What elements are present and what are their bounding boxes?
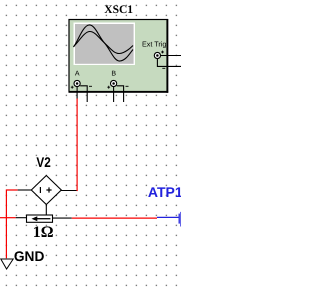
svg-text:A: A (75, 71, 80, 78)
svg-text:B: B (111, 71, 116, 78)
svg-text:1Ω: 1Ω (33, 224, 54, 241)
svg-text:XSC1: XSC1 (104, 4, 133, 16)
svg-text:ATP1: ATP1 (148, 184, 181, 200)
svg-text:Ext Trig: Ext Trig (142, 40, 166, 49)
svg-text:GND: GND (14, 248, 45, 264)
svg-text:V2: V2 (36, 154, 51, 170)
